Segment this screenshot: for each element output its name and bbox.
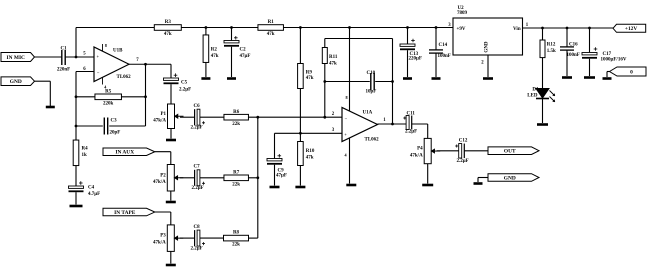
junction C14 top bbox=[435, 26, 438, 29]
capacitor C16 100nF bbox=[566, 28, 568, 47]
wire D1 to ground bbox=[542, 99, 544, 124]
resistor R5 220k feedback bbox=[76, 96, 95, 98]
svg-text:2.2µF: 2.2µF bbox=[179, 88, 191, 93]
svg-text:−: − bbox=[345, 117, 348, 122]
junction C16 top bbox=[566, 27, 569, 30]
wire C12 to OUT tag bbox=[464, 150, 488, 152]
wire bias from divider to pin5 bbox=[75, 28, 77, 58]
svg-text:+9V: +9V bbox=[457, 27, 466, 32]
pin 8 power stub U1B bbox=[102, 44, 104, 51]
svg-text:22k: 22k bbox=[232, 182, 240, 187]
capacitor C6 2.2uF bbox=[194, 109, 196, 125]
capacitor C11 2.2uF bbox=[406, 116, 409, 130]
wire C7 to R7 bbox=[200, 177, 224, 179]
capacitor C1 220nF bbox=[61, 50, 63, 65]
ground for C4 bbox=[70, 205, 83, 208]
junction R5 right bbox=[144, 95, 147, 98]
svg-text:1.5k: 1.5k bbox=[547, 49, 556, 54]
node GND input tag bbox=[1, 77, 35, 86]
svg-text:TL062: TL062 bbox=[365, 138, 380, 143]
svg-text:2.2µF: 2.2µF bbox=[191, 247, 203, 252]
ground for U1A bbox=[346, 184, 356, 187]
junction C10 left bbox=[323, 80, 326, 83]
capacitor C13 220uF bbox=[407, 28, 409, 45]
resistor R10 47k bbox=[298, 142, 304, 166]
ground for 0V tag bbox=[603, 77, 612, 80]
ground for R2 bbox=[201, 77, 210, 80]
svg-text:4.7µF: 4.7µF bbox=[88, 192, 100, 197]
svg-text:C10: C10 bbox=[367, 71, 376, 76]
wire bias rail left segment bbox=[76, 27, 154, 29]
junction bus channel2 bbox=[256, 176, 259, 179]
wire R7 to bus bbox=[249, 177, 258, 179]
svg-text:22k: 22k bbox=[232, 122, 240, 127]
wire P4 to ground bbox=[427, 164, 429, 184]
capacitor C7 2.2uF bbox=[194, 170, 196, 186]
wire U1A output bbox=[378, 123, 407, 125]
potentiometer P4 47k/A bbox=[424, 138, 431, 163]
ground for GND tag bbox=[46, 106, 55, 109]
svg-text:47k: 47k bbox=[164, 32, 172, 37]
wire U1B pin6 bbox=[76, 71, 94, 73]
wire P2 to ground bbox=[170, 191, 172, 201]
resistor R11 47k feedback bbox=[324, 64, 326, 118]
svg-text:20pF: 20pF bbox=[110, 131, 121, 136]
svg-text:R6: R6 bbox=[233, 110, 240, 115]
resistor R4 1k bbox=[73, 140, 79, 166]
diode D1 LED bbox=[536, 89, 549, 99]
junction R2 top bbox=[205, 26, 208, 29]
wire U1B out to C5 bbox=[170, 64, 172, 78]
svg-text:47k/A: 47k/A bbox=[153, 180, 166, 185]
svg-text:2.2µF: 2.2µF bbox=[405, 130, 417, 135]
svg-text:C2: C2 bbox=[240, 48, 247, 53]
node GND output tag bbox=[488, 174, 539, 182]
svg-text:R12: R12 bbox=[547, 43, 556, 48]
svg-text:R5: R5 bbox=[105, 89, 112, 94]
resistor R12 1.5k bbox=[542, 28, 544, 40]
svg-text:R4: R4 bbox=[82, 147, 89, 152]
junction pin5 bias node bbox=[75, 56, 78, 59]
wire IN MIC to C1 bbox=[35, 56, 62, 58]
svg-text:C3: C3 bbox=[111, 119, 118, 124]
wire C2 to ground bbox=[231, 47, 233, 77]
wire R10 to ground bbox=[299, 166, 301, 186]
svg-text:C5: C5 bbox=[181, 81, 188, 86]
junction C17 top bbox=[588, 27, 591, 30]
svg-text:LED: LED bbox=[527, 94, 538, 99]
svg-text:R2: R2 bbox=[211, 48, 218, 53]
op-amp U1A TL062 bbox=[342, 108, 378, 142]
junction R12 top bbox=[541, 27, 544, 30]
ground for GND output tag bbox=[474, 182, 483, 185]
wire P3 to ground bbox=[170, 251, 172, 263]
svg-text:IN TAPE: IN TAPE bbox=[114, 210, 136, 216]
svg-text:10pF: 10pF bbox=[366, 90, 377, 95]
svg-text:C4: C4 bbox=[88, 186, 95, 191]
svg-text:1000µF/16V: 1000µF/16V bbox=[601, 58, 627, 63]
svg-text:8: 8 bbox=[105, 43, 107, 48]
svg-text:R10: R10 bbox=[306, 149, 315, 154]
node IN MIC input tag bbox=[1, 53, 35, 62]
svg-text:C12: C12 bbox=[459, 139, 468, 144]
wire U1A pin4 to ground bbox=[349, 138, 351, 184]
ground for P3 bbox=[166, 264, 176, 267]
svg-text:100nF: 100nF bbox=[567, 53, 580, 58]
ground for C13 bbox=[403, 77, 412, 80]
svg-text:C6: C6 bbox=[194, 104, 201, 109]
junction C10 right bbox=[391, 80, 394, 83]
wire feedback top bbox=[325, 38, 393, 40]
ground for R10 bbox=[295, 186, 305, 189]
ground for P1 bbox=[166, 139, 176, 142]
resistor R9 47k bbox=[298, 64, 304, 89]
ground for C2 bbox=[227, 77, 236, 80]
svg-text:47k: 47k bbox=[329, 62, 337, 67]
capacitor C14 100nF bbox=[435, 28, 437, 50]
ground for C16 bbox=[562, 76, 572, 79]
svg-text:47k: 47k bbox=[211, 54, 219, 59]
svg-text:0: 0 bbox=[630, 69, 633, 75]
wire U1B output pin7 bbox=[129, 63, 171, 65]
wire R6 to U1A pin2 bbox=[249, 116, 343, 118]
wire P3 wiper to C8 bbox=[180, 237, 194, 239]
svg-text:C7: C7 bbox=[194, 165, 201, 170]
node IN TAPE input tag bbox=[103, 208, 155, 216]
resistor R3 47k bbox=[154, 25, 181, 31]
svg-text:7809: 7809 bbox=[457, 11, 468, 16]
wire GND tag to ground bbox=[35, 80, 51, 82]
wire IN TAPE to P3 bbox=[155, 211, 171, 213]
svg-text:2.2µF: 2.2µF bbox=[192, 186, 204, 191]
wire U2 pin1 to +12V bbox=[523, 27, 614, 29]
node +12V supply tag bbox=[613, 24, 646, 32]
op-amp U1B TL062 bbox=[94, 47, 129, 82]
svg-text:+12V: +12V bbox=[625, 26, 637, 32]
capacitor C10 10pF bbox=[325, 81, 370, 83]
svg-text:P4: P4 bbox=[417, 147, 423, 152]
wire feedback vertical bbox=[145, 64, 147, 126]
wire C5 to P1 bbox=[170, 84, 172, 104]
junction R9 top bbox=[299, 26, 302, 29]
svg-text:47k/A: 47k/A bbox=[153, 118, 166, 123]
wire inverting node vertical bbox=[75, 72, 77, 141]
svg-text:47k/A: 47k/A bbox=[153, 240, 166, 245]
svg-text:GND: GND bbox=[485, 41, 490, 53]
junction C2 top bbox=[230, 26, 233, 29]
wire P1 to ground bbox=[170, 129, 172, 139]
wire C9 to ground bbox=[274, 165, 276, 186]
svg-text:47k/A: 47k/A bbox=[410, 153, 423, 158]
node 0V supply tag bbox=[610, 67, 647, 76]
wire C9 drop bbox=[274, 133, 276, 158]
wire U2 pin2 to ground bbox=[487, 55, 489, 77]
ground for U2 bbox=[483, 77, 493, 80]
wire R12 to D1 bbox=[542, 58, 544, 89]
capacitor C12 2.2uF bbox=[459, 144, 462, 159]
wire P2 wiper to C7 bbox=[180, 177, 194, 179]
svg-text:100nF: 100nF bbox=[438, 54, 451, 59]
svg-text:R11: R11 bbox=[329, 55, 338, 60]
svg-text:GND: GND bbox=[504, 175, 516, 181]
wire P4 wiper to C12 bbox=[437, 150, 459, 152]
svg-text:U1B: U1B bbox=[113, 49, 123, 54]
ground for C14 bbox=[432, 77, 441, 80]
resistor R1 47k bbox=[258, 25, 284, 31]
svg-text:R8: R8 bbox=[233, 231, 240, 236]
svg-text:1k: 1k bbox=[82, 153, 88, 158]
svg-text:R3: R3 bbox=[165, 20, 172, 25]
svg-text:C11: C11 bbox=[407, 112, 416, 117]
wire U1A pin8 supply bbox=[349, 28, 351, 112]
wire R8 to bus / summing bus vertical bbox=[249, 237, 258, 239]
wire C8 to R8 bbox=[200, 237, 224, 239]
potentiometer P3 47k/A bbox=[167, 225, 174, 252]
resistor R2 47k bbox=[205, 28, 207, 36]
wire R4 to C4 bbox=[75, 166, 77, 187]
wire 0V tag to ground bbox=[607, 71, 610, 73]
svg-text:47µF: 47µF bbox=[240, 54, 251, 59]
junction U1B output bbox=[144, 63, 147, 66]
svg-text:8: 8 bbox=[345, 95, 347, 100]
wire R9 rail to bias bbox=[299, 28, 301, 64]
svg-text:47k: 47k bbox=[306, 156, 314, 161]
svg-text:OUT: OUT bbox=[504, 149, 516, 155]
svg-text:IN AUX: IN AUX bbox=[115, 150, 134, 156]
junction summing bus top bbox=[256, 116, 259, 119]
svg-text:C1: C1 bbox=[60, 47, 67, 52]
svg-text:R9: R9 bbox=[306, 71, 313, 76]
resistor R7 22k bbox=[224, 175, 249, 181]
potentiometer P2 47k/A bbox=[167, 165, 174, 192]
svg-text:47k: 47k bbox=[306, 76, 314, 81]
wire C4 to ground bbox=[75, 192, 77, 204]
svg-text:R7: R7 bbox=[233, 170, 240, 175]
junction C3 left bbox=[75, 125, 78, 128]
svg-text:P2: P2 bbox=[160, 173, 166, 178]
wire R2 to ground bbox=[205, 63, 207, 78]
wire pin3 row bbox=[275, 132, 343, 134]
potentiometer P1 47k/A bbox=[168, 104, 175, 129]
node IN AUX input tag bbox=[103, 148, 155, 156]
svg-text:U1A: U1A bbox=[363, 111, 373, 116]
node OUT tag bbox=[488, 147, 539, 155]
resistor R8 22k bbox=[224, 235, 249, 241]
resistor R6 22k bbox=[224, 114, 249, 120]
svg-text:C14: C14 bbox=[439, 43, 448, 48]
capacitor C8 2.2uF bbox=[194, 230, 196, 246]
svg-text:C16: C16 bbox=[569, 43, 578, 48]
svg-text:22k: 22k bbox=[232, 243, 240, 248]
ground for P2 bbox=[166, 201, 176, 204]
capacitor C3 20pF bbox=[76, 125, 103, 127]
svg-text:47µF: 47µF bbox=[276, 174, 287, 179]
svg-text:R1: R1 bbox=[268, 20, 275, 25]
junction U1A supply bbox=[348, 26, 351, 29]
ground for C9 bbox=[270, 186, 280, 189]
ground for C17 bbox=[584, 76, 595, 79]
svg-text:C17: C17 bbox=[603, 52, 612, 57]
svg-text:GND: GND bbox=[10, 79, 22, 85]
capacitor C5 2.2uF bbox=[164, 78, 179, 80]
svg-text:220nF: 220nF bbox=[57, 68, 70, 73]
wire C1 to U1B pin5 bbox=[65, 56, 94, 58]
wire +9V rail bbox=[284, 27, 454, 29]
ground for P4 bbox=[422, 184, 433, 187]
junction U1A output bbox=[391, 123, 394, 126]
svg-text:P1: P1 bbox=[160, 112, 166, 117]
wire R9 to R10 node bbox=[299, 89, 301, 142]
svg-text:D1: D1 bbox=[532, 88, 539, 93]
capacitor C4 4.7uF bbox=[69, 186, 84, 188]
wire divider node segment bbox=[181, 27, 258, 29]
junction feedback R11 bbox=[323, 116, 326, 119]
svg-text:2.2µF: 2.2µF bbox=[457, 159, 469, 164]
svg-text:IN MIC: IN MIC bbox=[7, 55, 26, 61]
wire C11 to P4 bbox=[412, 123, 428, 125]
wire GND tag to ground bbox=[478, 177, 488, 179]
svg-text:220k: 220k bbox=[103, 101, 114, 106]
wire IN AUX to P2 bbox=[155, 151, 171, 153]
svg-text:220µF: 220µF bbox=[409, 57, 422, 62]
voltage regulator U2 7809 bbox=[453, 18, 523, 55]
svg-text:−: − bbox=[97, 70, 100, 75]
capacitor C17 1000uF/16V bbox=[589, 28, 591, 53]
svg-text:C8: C8 bbox=[194, 225, 201, 230]
capacitor C2 47uF bbox=[231, 28, 233, 41]
junction R5 left bbox=[75, 95, 78, 98]
junction bias node pin3 bbox=[299, 132, 302, 135]
svg-text:47k: 47k bbox=[267, 32, 275, 37]
wire P1 wiper to C6 bbox=[180, 116, 194, 118]
svg-text:P3: P3 bbox=[160, 234, 166, 239]
junction C13 top bbox=[406, 26, 409, 29]
svg-text:+: + bbox=[344, 132, 347, 137]
wire C6 to R6 bbox=[200, 116, 224, 118]
svg-text:Vin: Vin bbox=[513, 27, 521, 32]
capacitor C9 47uF bbox=[267, 159, 282, 161]
svg-text:TL062: TL062 bbox=[117, 75, 132, 80]
ground for D1 bbox=[537, 123, 548, 126]
svg-text:2.2µF: 2.2µF bbox=[191, 126, 203, 131]
pin 4 power stub U1B bbox=[102, 77, 104, 84]
svg-text:+: + bbox=[97, 54, 100, 59]
